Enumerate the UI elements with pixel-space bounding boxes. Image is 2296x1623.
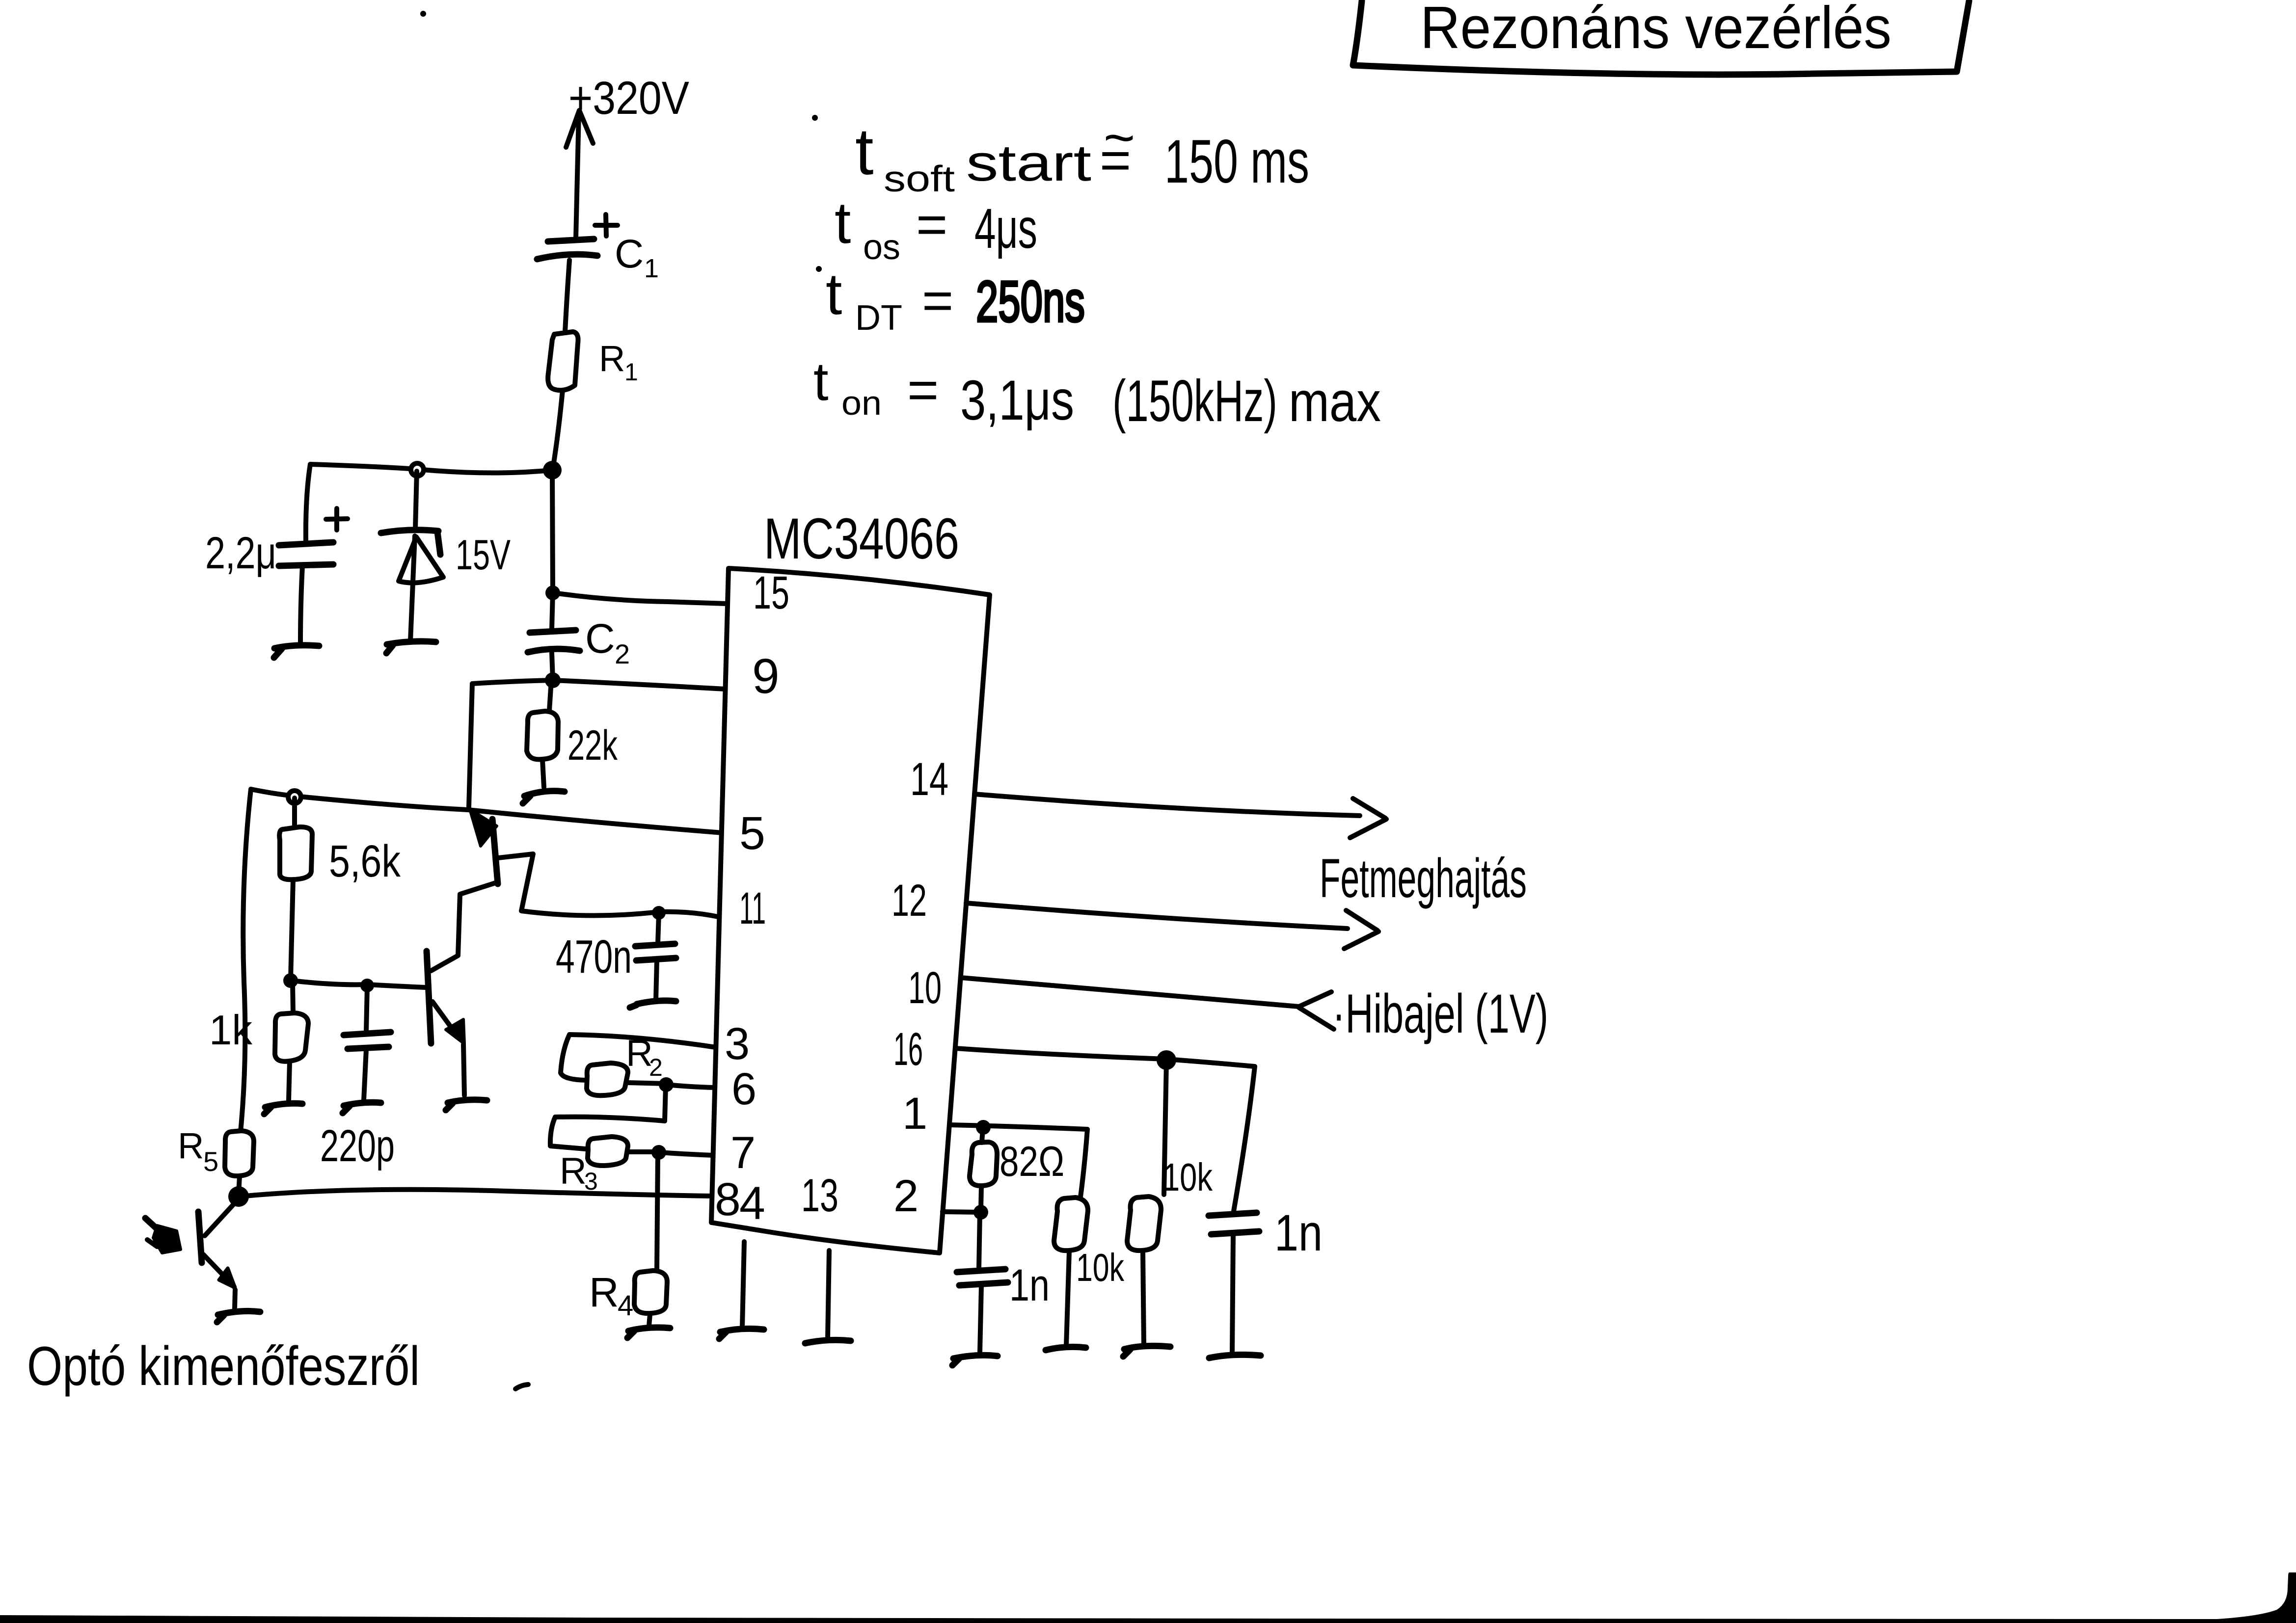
capacitor 1n left xyxy=(957,1269,1008,1353)
ground (Q2) xyxy=(446,1100,487,1110)
svg-text:2: 2 xyxy=(615,639,630,669)
wire IC pin 2 to node xyxy=(943,1212,980,1212)
resistor 1k xyxy=(275,1013,308,1062)
ground (2,2u) xyxy=(274,645,319,658)
svg-text:t: t xyxy=(826,261,842,327)
ground (220p) xyxy=(343,1102,381,1113)
svg-text:5,6k: 5,6k xyxy=(329,836,401,886)
resistor R5 xyxy=(225,1131,254,1176)
+320V supply arrow xyxy=(566,110,593,239)
scan edge right corner xyxy=(2185,1572,2296,1623)
wire 2,2u to ground xyxy=(300,566,302,643)
node junction rail / zener xyxy=(411,463,424,476)
node junction pin7 xyxy=(651,1145,666,1160)
svg-text:start: start xyxy=(966,134,1091,192)
svg-text:3,1μs: 3,1μs xyxy=(960,369,1074,432)
svg-text:10k: 10k xyxy=(1076,1246,1125,1289)
wire top-left rail xyxy=(310,464,552,473)
svg-text:R: R xyxy=(589,1269,619,1315)
node junction 220p xyxy=(360,979,374,992)
svg-text:t: t xyxy=(835,190,851,256)
node junction 470n xyxy=(652,906,666,920)
svg-text:13: 13 xyxy=(801,1170,838,1222)
annotation t_on = 3,1us (150kHz) max xyxy=(813,351,1381,434)
wire Q2 emitter to ground xyxy=(463,1044,464,1095)
wire node to 1k xyxy=(293,982,293,1013)
zener diode 15V xyxy=(381,471,443,641)
svg-text:MC34066: MC34066 xyxy=(764,506,959,571)
wire pin 1 xyxy=(949,1125,1087,1129)
wire bend down to R3 xyxy=(550,1117,585,1149)
wire node down to 1n left xyxy=(979,1213,980,1269)
wire C2 to pin9 node xyxy=(552,653,553,679)
svg-text:1: 1 xyxy=(644,254,659,283)
wire Q1 base to pin11 xyxy=(498,854,718,917)
ground (10k lower) xyxy=(1046,1347,1086,1350)
opto transistor base bar xyxy=(198,1212,202,1263)
wire long to IC pin 8 xyxy=(240,1190,712,1197)
ground (pin13) xyxy=(805,1340,851,1343)
transistor Q1 base bar xyxy=(492,819,498,884)
svg-text:R: R xyxy=(560,1150,587,1192)
wire pin9 node to 22k xyxy=(549,680,551,711)
svg-text:t: t xyxy=(813,351,829,412)
svg-text:10: 10 xyxy=(908,963,942,1013)
wire pin7 node down to R4 xyxy=(657,1153,658,1271)
svg-text:12: 12 xyxy=(891,876,927,926)
opto emitter arrow xyxy=(219,1268,235,1288)
svg-text:=: = xyxy=(916,194,947,255)
node junction 5,6k xyxy=(288,791,301,803)
ground (22k) xyxy=(523,791,565,803)
wire Q2 collector xyxy=(431,956,458,971)
wire pin 12 output xyxy=(966,903,1348,929)
ground (1k) xyxy=(264,1103,302,1114)
resistor R2 xyxy=(587,1063,628,1095)
arrow pin10 xyxy=(1299,992,1334,1029)
resistor R1 xyxy=(548,332,578,390)
wire opto emitter to ground xyxy=(235,1290,235,1308)
resistor 22k xyxy=(527,711,558,759)
resistor R4 xyxy=(634,1271,667,1313)
svg-text:3: 3 xyxy=(584,1168,598,1195)
svg-text:470n: 470n xyxy=(556,931,632,983)
node junction pin9 wire xyxy=(545,672,561,688)
node junction 10k xyxy=(1157,1050,1176,1070)
wire to IC pin 9 xyxy=(472,680,725,689)
svg-text:15V: 15V xyxy=(456,532,511,579)
svg-text:6: 6 xyxy=(731,1064,756,1114)
svg-text:soft: soft xyxy=(884,158,955,199)
svg-text:4: 4 xyxy=(618,1290,633,1322)
annotation t_DT = 250 ns xyxy=(816,261,1085,338)
svg-text:1: 1 xyxy=(624,358,638,386)
wire IC pin 13 to ground xyxy=(828,1251,829,1339)
svg-text:on: on xyxy=(841,384,882,422)
ground (1n left) xyxy=(952,1355,998,1365)
wire pin 14 output xyxy=(974,794,1360,816)
svg-text:7: 7 xyxy=(730,1128,756,1178)
resistor 5,6k xyxy=(279,827,312,879)
ground (zener) xyxy=(386,641,436,653)
arrow pin14 xyxy=(1350,798,1386,838)
wire pin9 rail down to Q1 emitter xyxy=(469,684,472,807)
opto light arrow 2 xyxy=(153,1225,181,1253)
svg-text:=: = xyxy=(907,360,939,420)
wire pin5 from left rail xyxy=(251,789,723,833)
svg-text:14: 14 xyxy=(910,753,948,805)
ground (opto) xyxy=(217,1311,260,1322)
ground (R4) xyxy=(627,1328,670,1338)
svg-text:+320V: +320V xyxy=(568,72,689,124)
svg-text:(150kHz): (150kHz) xyxy=(1112,368,1277,434)
wire 10k upper top xyxy=(1164,1061,1166,1195)
svg-text:Rezonáns vezérlés: Rezonáns vezérlés xyxy=(1420,0,1891,61)
svg-text:250ns: 250ns xyxy=(976,269,1085,334)
wire node to C2 xyxy=(552,593,553,629)
wire bend down to 10k lower xyxy=(1080,1129,1087,1197)
svg-text:R: R xyxy=(178,1125,204,1166)
wire 82ohm to pin2 node xyxy=(981,1186,981,1209)
svg-text:max: max xyxy=(1289,371,1381,433)
stray mark xyxy=(515,1384,528,1389)
svg-text:1n: 1n xyxy=(1009,1260,1050,1310)
arrow pin12 xyxy=(1344,910,1378,949)
node junction pin2 xyxy=(973,1205,988,1220)
svg-text:1: 1 xyxy=(902,1089,927,1139)
wire 5,6k to base node xyxy=(291,879,293,980)
svg-text:C: C xyxy=(615,232,644,276)
wire R4 to ground xyxy=(649,1314,650,1326)
node junction rail / R1 xyxy=(543,461,562,479)
wire R3 to pin7 node xyxy=(628,1149,659,1154)
wire Q1 collector down xyxy=(458,883,495,956)
wire R1 to top rail xyxy=(553,390,563,469)
ground (10k upper) xyxy=(1123,1346,1170,1357)
svg-text:DT: DT xyxy=(855,298,902,338)
opto transistor emitter xyxy=(203,1254,227,1279)
opto transistor collector xyxy=(205,1200,237,1236)
svg-text:Optó kimenőfeszről: Optó kimenőfeszről xyxy=(27,1335,420,1397)
svg-text:Fetmeghajtás: Fetmeghajtás xyxy=(1320,848,1527,909)
wire left rail xyxy=(241,789,251,1132)
resistor 10k lower xyxy=(1054,1197,1088,1251)
wire 10k lower to ground xyxy=(1066,1251,1069,1346)
svg-text:10k: 10k xyxy=(1162,1155,1213,1199)
scan edge bottom band xyxy=(0,1615,2296,1623)
wire 5,6k top xyxy=(292,798,297,826)
wire base node to Q2 base xyxy=(292,981,426,987)
wire R5 to bottom node xyxy=(239,1176,240,1195)
svg-text:82Ω: 82Ω xyxy=(999,1138,1064,1185)
resistor 10k upper xyxy=(1127,1197,1161,1251)
IC U1 box xyxy=(711,568,990,1253)
svg-text:5: 5 xyxy=(739,807,765,859)
wire IC pin 4 to ground xyxy=(742,1242,744,1328)
wire to IC pin 15 xyxy=(554,593,727,604)
resistor R3 xyxy=(588,1137,628,1166)
wire pin 16 xyxy=(955,1048,1255,1066)
annotation t_os = 4 us xyxy=(835,190,1037,267)
svg-text:11: 11 xyxy=(739,883,766,933)
transistor Q2 emitter arrow xyxy=(446,1019,464,1044)
svg-text:9: 9 xyxy=(752,649,780,704)
svg-text:C: C xyxy=(585,615,615,662)
svg-text:os: os xyxy=(863,228,900,267)
node junction base wire xyxy=(283,973,298,988)
wire pin6 node down xyxy=(665,1086,666,1121)
svg-text:3: 3 xyxy=(725,1019,750,1069)
node junction R5/opto/pin8 xyxy=(228,1186,249,1207)
svg-text:2: 2 xyxy=(893,1171,918,1221)
title frame box xyxy=(1353,1,1969,75)
capacitor 470n xyxy=(635,914,676,1000)
capacitor 1n right xyxy=(1209,1213,1259,1353)
node junction pin15 xyxy=(545,585,560,600)
svg-text:R: R xyxy=(599,338,625,379)
svg-text:·Hibajel (1V): ·Hibajel (1V) xyxy=(1332,983,1548,1044)
svg-text:15: 15 xyxy=(753,567,789,619)
svg-text:2: 2 xyxy=(649,1054,663,1081)
node junction 82ohm xyxy=(976,1120,991,1135)
opto light arrow 1 xyxy=(145,1218,158,1230)
svg-text:8: 8 xyxy=(715,1173,741,1225)
wire 22k to ground xyxy=(542,760,544,787)
wire across to left xyxy=(555,1117,665,1121)
capacitor C1 xyxy=(537,214,618,259)
transistor Q1 emitter arrow xyxy=(470,809,497,846)
svg-text:=: = xyxy=(1100,130,1131,190)
ground (pin4) xyxy=(719,1329,764,1339)
svg-text:=: = xyxy=(922,270,953,331)
wire node to IC pin 6 xyxy=(666,1085,715,1088)
annotation t_soft_start = 150 ms xyxy=(812,107,1309,199)
svg-text:4: 4 xyxy=(739,1177,765,1229)
wire bend down to 1n xyxy=(1234,1066,1255,1211)
wire 1k to ground xyxy=(289,1062,290,1100)
svg-text:t: t xyxy=(855,114,874,188)
wire C1 to R1 xyxy=(565,260,569,332)
wire pin 3 to R2 xyxy=(561,1035,716,1080)
wire 10k upper to ground xyxy=(1143,1251,1144,1345)
svg-text:220p: 220p xyxy=(320,1121,395,1171)
wire rail down to pin15 node xyxy=(552,470,553,592)
wire rail to 2,2u cap xyxy=(306,464,310,541)
wire node to 82ohm xyxy=(982,1128,983,1143)
svg-text:5: 5 xyxy=(203,1146,218,1177)
resistor 82ohm xyxy=(970,1142,997,1186)
transistor Q2 base bar xyxy=(427,951,431,1043)
node junction pin6 xyxy=(659,1077,674,1092)
svg-text:1n: 1n xyxy=(1274,1204,1323,1262)
svg-text:22k: 22k xyxy=(567,722,618,769)
capacitor 2,2u xyxy=(279,508,348,566)
svg-text:2,2μ: 2,2μ xyxy=(205,528,276,578)
wire pin 10 input xyxy=(961,978,1299,1007)
wire Q2 emitter xyxy=(432,1002,459,1038)
capacitor 220p xyxy=(344,986,391,1100)
svg-text:4μs: 4μs xyxy=(974,197,1037,260)
ground (1n right) xyxy=(1209,1355,1261,1358)
stray dot top left xyxy=(420,11,426,17)
wire R2 to pin6 node xyxy=(628,1083,666,1084)
ground (470n) xyxy=(630,1001,676,1008)
wire node to IC pin 7 xyxy=(659,1152,713,1155)
svg-text:150 ms: 150 ms xyxy=(1164,128,1309,196)
svg-text:16: 16 xyxy=(893,1023,923,1075)
capacitor C2 xyxy=(528,630,580,652)
